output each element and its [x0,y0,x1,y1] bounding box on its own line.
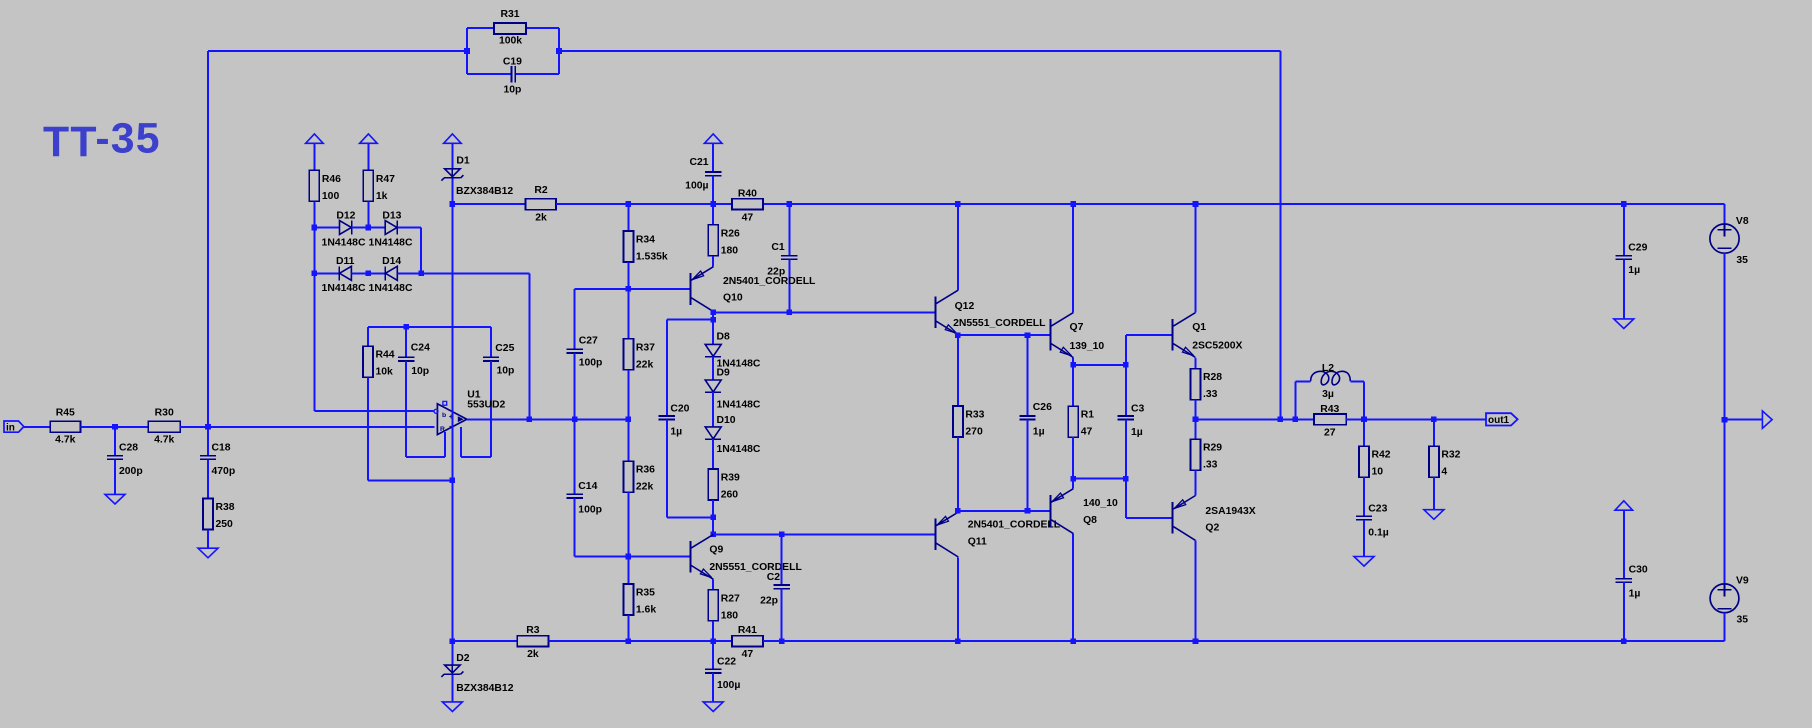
resistor R35 [623,584,656,616]
wire [1294,381,1296,419]
junction [403,324,409,330]
wire [467,27,494,29]
resistor R44 [363,346,395,378]
svg-text:22p: 22p [760,596,778,607]
svg-text:1µ: 1µ [1628,265,1640,276]
svg-text:R44: R44 [376,350,395,361]
svg-text:R2: R2 [534,185,548,196]
power flag [306,134,324,143]
wire [627,557,629,585]
wire [208,50,467,52]
wire [712,500,714,534]
junction [366,225,372,231]
junction [1621,638,1627,644]
zener D2 [441,653,513,694]
wire [627,615,629,641]
svg-text:in: in [6,423,15,434]
wire [467,418,629,420]
wire [712,579,714,590]
wire [207,51,209,427]
junction [626,554,632,560]
wire [114,459,116,494]
junction [779,638,785,644]
wire [1363,381,1365,419]
wire [1073,364,1126,366]
wire [1072,437,1074,478]
wire [367,327,369,346]
wire [367,378,369,481]
svg-text:BZX384B12: BZX384B12 [456,683,513,694]
power flag [704,134,722,143]
svg-text:R43: R43 [1320,404,1339,415]
wire [314,272,339,274]
wire [712,673,714,702]
junction [626,417,632,423]
svg-text:Q10: Q10 [723,292,743,303]
svg-text:1N4148C: 1N4148C [322,237,366,248]
port out1 [1486,413,1518,426]
svg-text:D13: D13 [382,210,401,221]
svg-text:R31: R31 [500,9,519,20]
capacitor C24 [398,342,430,377]
junction [418,271,424,277]
wire [627,204,629,231]
svg-text:180: 180 [721,245,739,256]
wire [314,227,339,229]
svg-text:R36: R36 [636,465,655,476]
wire [712,320,714,345]
svg-text:1µ: 1µ [1131,427,1143,438]
svg-text:D1: D1 [456,156,470,167]
svg-text:1N4148C: 1N4148C [717,400,761,411]
svg-text:C19: C19 [503,56,522,67]
svg-text:TT-35: TT-35 [43,115,161,166]
junction [710,310,716,316]
power flag [444,134,462,143]
transistor Q8 [1050,489,1118,534]
junction [1193,201,1199,207]
svg-text:C29: C29 [1628,242,1647,253]
svg-text:140_10: 140_10 [1083,498,1118,509]
svg-text:b: b [442,412,446,419]
diode D9 [705,367,761,410]
wire [1072,204,1074,312]
capacitor C29 [1616,242,1648,276]
wire [452,203,525,205]
junction [710,201,716,207]
wire [451,143,453,169]
svg-text:139_10: 139_10 [1070,341,1105,352]
svg-text:R35: R35 [636,588,655,599]
op-amp U1 [434,390,506,435]
wire [1295,380,1310,382]
wire [406,456,445,458]
wire [556,203,732,205]
junction [710,515,716,521]
svg-text:.33: .33 [1203,460,1218,471]
svg-text:10p: 10p [503,84,521,95]
ground [703,702,723,712]
wire [490,361,492,457]
wire [712,357,714,380]
wire [574,353,576,420]
junction [710,532,716,538]
svg-text:100µ: 100µ [685,180,708,191]
diode D14 [369,256,413,294]
resistor R33 [953,406,985,438]
svg-text:47: 47 [1081,427,1093,438]
svg-text:260: 260 [721,490,739,501]
wire [207,459,209,498]
junction [464,48,470,54]
capacitor C3 [1118,404,1145,438]
wire [460,427,462,457]
inductor L2 [1311,363,1351,400]
svg-text:C3: C3 [1131,404,1145,415]
wire [958,334,1051,336]
svg-text:Q11: Q11 [968,537,987,548]
wire [1072,534,1074,642]
svg-text:R27: R27 [721,593,740,604]
svg-text:270: 270 [965,427,983,438]
resistor R3 [517,625,548,660]
wire [397,272,529,274]
svg-text:2SA1943X: 2SA1943X [1205,506,1255,517]
capacitor C25 [483,343,515,377]
resistor R39 [708,469,740,501]
svg-text:C24: C24 [411,342,430,353]
svg-text:Q8: Q8 [1083,515,1097,526]
wire [1073,478,1126,480]
wire [712,176,714,204]
transistor Q2 [1173,496,1256,541]
svg-text:35: 35 [1737,614,1749,625]
wire [405,361,407,457]
transistor Q9 [691,534,803,579]
svg-text:C26: C26 [1033,402,1052,413]
wire [1072,365,1074,406]
svg-text:R29: R29 [1203,443,1222,454]
net flag [1762,411,1772,428]
svg-text:C21: C21 [689,157,708,168]
resistor R28 [1191,369,1223,401]
wire [1126,517,1173,519]
wire [667,516,713,518]
wire [1363,419,1365,446]
svg-text:C27: C27 [579,336,598,347]
svg-text:R40: R40 [738,188,757,199]
wire [405,327,407,357]
wire [207,530,209,549]
svg-text:R: R [440,426,445,433]
wire [313,143,315,170]
svg-text:R1: R1 [1081,410,1095,421]
wire [627,289,629,339]
svg-text:R37: R37 [636,342,655,353]
wire [712,621,714,641]
resistor R32 [1429,446,1461,478]
wire [420,228,422,274]
ground [105,494,125,504]
wire [788,259,790,312]
wire [627,370,629,420]
transistor Q10 [691,267,817,312]
svg-text:47: 47 [742,649,754,660]
wire [452,640,517,642]
svg-text:Q9: Q9 [709,544,723,555]
transistor Q1 [1173,313,1243,358]
voltage source V9 [1710,576,1749,626]
junction [1070,476,1076,482]
wire [713,533,935,535]
svg-text:2N5551_CORDELL: 2N5551_CORDELL [709,562,802,573]
ground [1424,510,1444,520]
capacitor C27 [566,336,602,369]
svg-text:C30: C30 [1629,565,1648,576]
svg-text:100p: 100p [578,504,602,515]
junction [556,48,562,54]
wire [1125,479,1127,518]
wire [368,326,491,328]
svg-text:27: 27 [1324,427,1336,438]
wire [958,510,1051,512]
capacitor C19 [503,56,522,95]
wire [558,28,560,74]
svg-text:1.6k: 1.6k [636,605,656,616]
diode D8 [705,332,761,370]
resistor R46 [309,170,341,202]
svg-text:100µ: 100µ [717,680,740,691]
svg-text:1N4148C: 1N4148C [369,237,413,248]
svg-text:V8: V8 [1736,216,1749,227]
capacitor C20 [659,404,690,438]
svg-text:1k: 1k [376,191,388,202]
junction [205,424,211,430]
svg-text:R33: R33 [965,410,984,421]
svg-text:4.7k: 4.7k [55,435,75,446]
wire [712,256,714,267]
wire [575,556,691,558]
svg-text:100k: 100k [499,35,522,46]
junction [779,532,785,538]
junction [1123,362,1129,368]
wire [788,204,790,256]
junction [955,332,961,338]
voltage source V8 [1710,216,1749,266]
junction [1722,417,1728,423]
wire [1623,259,1625,319]
junction [312,271,318,277]
svg-text:out1: out1 [1488,415,1510,426]
svg-text:1N4148C: 1N4148C [322,283,366,294]
power flag [1615,501,1633,510]
junction [955,508,961,514]
resistor R42 [1359,446,1391,478]
wire [1623,582,1625,641]
svg-text:2SC5200X: 2SC5200X [1192,341,1242,352]
ground [1354,557,1374,567]
svg-text:C14: C14 [578,481,597,492]
wire [490,327,492,357]
transistor Q12 [935,290,1046,335]
svg-text:1N4148C: 1N4148C [369,283,413,294]
resistor R43 [1314,404,1346,439]
svg-text:R41: R41 [738,625,757,636]
svg-text:C2: C2 [767,572,781,583]
svg-text:0.1µ: 0.1µ [1368,527,1388,538]
svg-text:BZX384B12: BZX384B12 [456,186,513,197]
svg-text:Q12: Q12 [955,301,975,312]
wire [451,204,453,641]
junction [1123,476,1129,482]
wire [712,312,714,320]
junction [1070,201,1076,207]
svg-text:10p: 10p [411,366,429,377]
wire [461,456,491,458]
capacitor C14 [566,481,602,516]
junction [787,201,793,207]
svg-text:D2: D2 [456,653,470,664]
junction [572,417,578,423]
junction [112,424,118,430]
wire [763,203,1725,205]
wire [712,439,714,469]
junction [955,638,961,644]
resistor R26 [708,225,740,256]
svg-text:Q1: Q1 [1192,322,1206,333]
capacitor C22 [705,656,740,691]
junction [366,271,372,277]
svg-text:47: 47 [742,212,754,223]
ground [198,548,218,558]
wire [1194,540,1196,641]
junction [955,201,961,207]
junction [710,317,716,323]
wire [1196,418,1315,420]
resistor R38 [203,499,235,531]
wire [1346,418,1486,420]
capacitor C28 [107,442,143,477]
wire [1724,204,1726,224]
wire [781,534,783,585]
wire [1125,420,1127,479]
junction [626,638,632,644]
wire [451,178,453,204]
wire [1072,479,1074,489]
junction [1621,201,1627,207]
wire [1195,204,1197,312]
resistor R37 [623,339,655,371]
junction [1193,638,1199,644]
junction [450,478,456,484]
svg-text:1µ: 1µ [1033,427,1045,438]
svg-text:D14: D14 [382,256,401,267]
capacitor C30 [1616,565,1648,600]
junction [1070,638,1076,644]
wire [367,201,369,227]
port in [4,421,24,434]
svg-text:553UD2: 553UD2 [467,400,505,411]
ground [442,702,462,712]
junction [1293,417,1299,423]
svg-text:R47: R47 [376,174,395,185]
svg-text:C23: C23 [1368,503,1387,514]
resistor R45 [50,407,80,445]
wire [1363,520,1365,557]
svg-text:D11: D11 [336,256,355,267]
svg-text:R39: R39 [721,473,740,484]
wire [1027,420,1029,511]
svg-text:1.535k: 1.535k [636,252,668,263]
svg-text:R28: R28 [1203,372,1222,383]
wire [712,641,714,669]
svg-text:250: 250 [216,519,234,530]
wire [1195,358,1197,369]
junction [1025,508,1031,514]
resistor R47 [363,170,395,202]
wire [763,640,1725,642]
resistor R2 [526,185,557,223]
diode D12 [322,210,366,248]
wire [1279,51,1281,419]
junction [527,417,533,423]
resistor R31 [494,9,526,47]
wire [957,335,959,406]
wire [1433,477,1435,510]
wire [1195,400,1197,440]
wire [1433,419,1435,446]
resistor R34 [623,231,668,263]
wire [781,589,783,642]
svg-text:.33: .33 [1203,389,1218,400]
wire [451,675,453,703]
wire [713,311,935,313]
svg-text:C28: C28 [119,442,138,453]
junction [450,638,456,644]
wire [352,227,386,229]
capacitor C2 [760,572,790,607]
svg-text:2N5401_CORDELL: 2N5401_CORDELL [723,276,816,287]
svg-text:10p: 10p [497,366,515,377]
wire [314,410,433,412]
wire [1363,477,1365,516]
wire [1350,380,1364,382]
wire [528,273,530,419]
junction [312,225,318,231]
svg-text:Q2: Q2 [1205,523,1219,534]
svg-text:2N5401_CORDELL: 2N5401_CORDELL [968,520,1061,531]
wire [397,227,421,229]
wire [1125,335,1127,365]
wire [957,437,959,511]
wire [368,479,452,481]
svg-text:2N5551_CORDELL: 2N5551_CORDELL [953,318,1046,329]
svg-text:10k: 10k [376,367,394,378]
label TT-35 [43,115,161,166]
wire [526,27,559,29]
wire [627,419,629,461]
junction [1278,417,1284,423]
svg-text:2k: 2k [527,649,539,660]
svg-text:35: 35 [1736,255,1748,266]
svg-text:D10: D10 [717,415,736,426]
svg-text:1µ: 1µ [670,427,682,438]
svg-text:R34: R34 [636,235,655,246]
svg-text:D8: D8 [717,332,731,343]
svg-text:470p: 470p [212,466,236,477]
wire [466,28,468,74]
wire [367,143,369,170]
